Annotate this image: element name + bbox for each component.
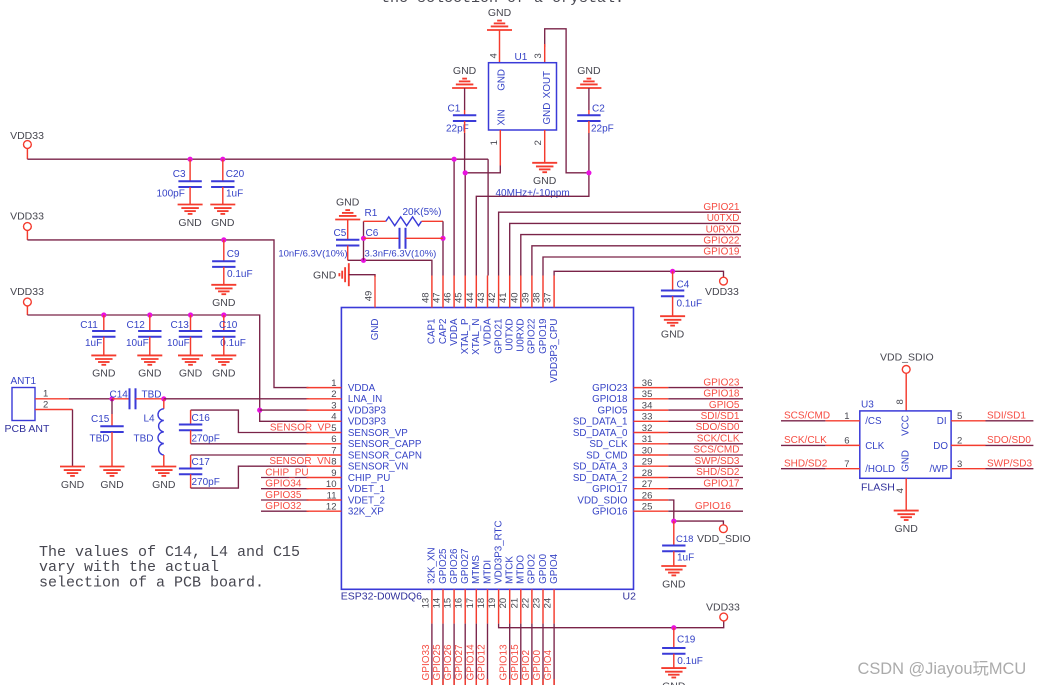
flash memory U3 body (860, 411, 951, 478)
capacitor C20 (211, 181, 234, 187)
svg-text:VDET_1: VDET_1 (348, 484, 385, 495)
svg-text:U3: U3 (861, 400, 874, 411)
svg-text:GPIO27: GPIO27 (454, 644, 465, 681)
svg-text:6: 6 (331, 434, 336, 445)
capacitor C2 (577, 115, 600, 121)
svg-text:32K_XP: 32K_XP (348, 507, 384, 518)
capacitor C15 bottom stub (111, 432, 113, 467)
svg-text:GPIO13: GPIO13 (499, 644, 510, 681)
svg-text:GPIO5: GPIO5 (709, 400, 740, 411)
svg-text:5: 5 (331, 423, 336, 434)
capacitor C20 top stub (222, 159, 224, 181)
svg-text:VDD33: VDD33 (10, 286, 44, 298)
capacitor C16 bottom stub (190, 430, 192, 444)
svg-text:GND: GND (533, 175, 557, 187)
wire net U0TXD (510, 223, 741, 275)
pin 3 VDD3P3 (U2 left) (307, 400, 387, 416)
svg-text:270pF: 270pF (192, 477, 220, 488)
wire VDD33 rail 1 vertical stub (26, 148, 28, 159)
svg-text:GND: GND (152, 479, 176, 491)
svg-text:10uF: 10uF (126, 338, 149, 349)
pin 46 VDDA (U2 top) (443, 276, 460, 346)
flash U3 pin 2 stub (right) (951, 444, 985, 446)
capacitor C6 (400, 228, 406, 249)
pin 22 GPIO2 (U2 bottom) (520, 554, 537, 624)
svg-text:C4: C4 (677, 280, 690, 291)
pin 19 VDD3P3_RTC (U2 bottom) (487, 520, 504, 623)
svg-text:2: 2 (957, 436, 962, 447)
resistor R1 left lead (364, 220, 386, 222)
svg-text:SWP/SD3: SWP/SD3 (694, 456, 739, 467)
svg-text:7: 7 (331, 445, 336, 456)
pin 45 XTAL_P (U2 top) (454, 276, 471, 355)
capacitor C6 right lead (406, 237, 444, 239)
wire net GPIO32 (pin stub) (261, 510, 309, 512)
svg-text:32: 32 (642, 423, 653, 434)
pin 25 GPIO16 (U2 right) (592, 502, 668, 518)
inductor L4 (158, 409, 164, 455)
svg-text:VDDA: VDDA (482, 318, 493, 346)
wire net GPIO2 red tail (531, 679, 533, 685)
wire net GPIO4 red tail (553, 679, 555, 685)
svg-text:GND: GND (542, 103, 553, 125)
svg-text:1uF: 1uF (226, 189, 243, 200)
wire net VDD_SDIO pin26 to C18 and terminal (668, 500, 723, 525)
svg-text:U0RXD: U0RXD (516, 319, 527, 352)
svg-text:0.1uF: 0.1uF (677, 656, 703, 667)
svg-text:1uF: 1uF (85, 338, 102, 349)
wire net GPIO2 (bottom) (531, 624, 533, 685)
svg-text:GPIO4: GPIO4 (549, 553, 560, 583)
svg-text:40MHz+/-10ppm: 40MHz+/-10ppm (496, 188, 570, 199)
svg-text:GND: GND (61, 479, 85, 491)
svg-text:/WP: /WP (929, 464, 948, 475)
capacitor C5 (336, 240, 359, 246)
crystal U1 pin 1 stub (499, 130, 501, 166)
wire SENSOR_VP pin5 to C16 top (191, 410, 309, 432)
svg-text:10nF/6.3V(10%): 10nF/6.3V(10%) (278, 249, 347, 260)
wire net SHD/SD2 (flash left) (781, 468, 825, 470)
svg-text:CHIP_PU: CHIP_PU (265, 467, 308, 478)
wire net VDD3P3_CPU to VDD33 / C4 (554, 271, 723, 277)
svg-text:45: 45 (454, 292, 465, 303)
ground under C19 (661, 668, 686, 685)
svg-text:SCS/CMD: SCS/CMD (784, 411, 830, 422)
svg-text:6: 6 (844, 436, 849, 447)
svg-text:C5: C5 (334, 228, 347, 239)
svg-text:GPIO32: GPIO32 (265, 501, 302, 512)
svg-text:12: 12 (326, 502, 337, 513)
VDD_SDIO terminal circle (above U3) (902, 366, 910, 374)
junction C6 right node (440, 236, 445, 241)
capacitor C15 (100, 426, 123, 432)
capacitor C12 top stub (149, 315, 151, 331)
wire net GPIO22 (532, 246, 741, 276)
capacitor C17 (179, 469, 202, 475)
svg-text:SENSOR_VN: SENSOR_VN (269, 456, 331, 467)
wire net GPIO25 red tail (442, 679, 444, 685)
svg-text:17: 17 (465, 598, 476, 609)
junction C14 right node / L4 (161, 396, 166, 401)
wire net SCK/CLK (right) (668, 443, 743, 445)
svg-text:13: 13 (420, 598, 431, 609)
svg-text:47: 47 (432, 292, 443, 303)
capacitor C4 bottom stub (672, 296, 674, 316)
pin 48 CAP1 (U2 top) (420, 276, 437, 345)
wire net VDD3P3_RTC pin19 to VDD33 / C19 (499, 621, 724, 628)
capacitor C1 bottom stub (464, 121, 466, 133)
pin 35 GPIO18 (U2 right) (592, 389, 668, 405)
antenna pin 2 stub (35, 409, 73, 411)
svg-text:42: 42 (487, 292, 498, 303)
svg-text:GPIO16: GPIO16 (695, 501, 732, 512)
capacitor C14 left stub (112, 398, 130, 400)
wire VDD33 rail 3 horizontal and drop to VDD3P3 pins 3-4 (27, 315, 308, 421)
svg-text:GPIO14: GPIO14 (465, 644, 476, 681)
ground under C15 (100, 467, 125, 491)
svg-text:C18: C18 (676, 534, 693, 545)
svg-text:GND: GND (313, 270, 337, 282)
svg-text:4: 4 (489, 53, 500, 58)
svg-text:CHIP_PU: CHIP_PU (348, 473, 390, 484)
svg-text:C10: C10 (219, 320, 238, 331)
svg-text:VDD_SDIO: VDD_SDIO (697, 533, 751, 545)
svg-text:U0RXD: U0RXD (706, 224, 740, 235)
svg-text:TBD: TBD (134, 434, 154, 445)
svg-text:GPIO2: GPIO2 (521, 649, 532, 680)
wire net GPIO14 red tail (475, 679, 477, 685)
inductor L4 top stub (163, 399, 165, 409)
capacitor C5 bottom stub (347, 246, 349, 261)
svg-text:20K(5%): 20K(5%) (403, 207, 442, 218)
pin 20 MTCK (U2 bottom) (498, 556, 515, 624)
power symbol VDD33 (rail 1) (10, 130, 44, 142)
svg-text:33: 33 (642, 412, 653, 423)
pin 2 LNA_IN (U2 left) (307, 389, 383, 405)
wire net GPIO19 (543, 257, 741, 276)
capacitor C13 (179, 331, 202, 337)
svg-text:SWP/SD3: SWP/SD3 (987, 458, 1032, 469)
VDD33 terminal circle (bottom) (720, 613, 728, 621)
capacitor C10 (212, 331, 235, 337)
flash U3 pin 4 stub (bottom) (905, 478, 907, 510)
svg-text:VDD33: VDD33 (10, 211, 44, 223)
svg-text:14: 14 (432, 598, 443, 609)
capacitor C19 top stub (673, 628, 675, 648)
svg-text:TBD: TBD (90, 434, 110, 445)
note text about C14 L4 C15 (39, 544, 300, 591)
inductor L4 bottom stub (163, 455, 165, 467)
pin 1 VDDA (U2 left) (307, 378, 376, 394)
flash U3 pin 5 stub (right) (951, 420, 985, 422)
junction C9 / VDD33 rail 2 (221, 237, 226, 242)
svg-text:GND: GND (138, 368, 162, 380)
svg-text:GPIO26: GPIO26 (443, 644, 454, 681)
junction C11 / VDD33 rail 3 (101, 312, 106, 317)
svg-text:SENSOR_CAPP: SENSOR_CAPP (348, 439, 422, 450)
wire net SDI/SD1 (flash right) (986, 420, 1034, 422)
svg-text:GND: GND (178, 217, 202, 229)
svg-text:10uF: 10uF (167, 338, 190, 349)
capacitor C11 top stub (103, 315, 105, 331)
svg-text:SCK/CLK: SCK/CLK (697, 434, 740, 445)
flash U3 pin 7 stub (left) (825, 468, 859, 470)
wire net GPIO26 red tail (453, 679, 455, 685)
wire net GPIO21 (499, 212, 741, 275)
wire ground to C5 (347, 220, 349, 240)
pin 30 SD_CMD (U2 right) (586, 445, 668, 461)
svg-text:U2: U2 (623, 591, 637, 603)
svg-text:XOUT: XOUT (542, 71, 553, 98)
ground under C12 (137, 355, 162, 379)
svg-text:GND: GND (488, 7, 512, 19)
pin 32 SD_DATA_0 (U2 right) (573, 423, 668, 439)
svg-text:24: 24 (543, 598, 554, 609)
wire VDD33 branch to pin 46 (453, 159, 455, 275)
capacitor C14 right stub (136, 398, 164, 400)
svg-text:GPIO0: GPIO0 (538, 553, 549, 583)
wire VDD33 rail 2 stub (26, 230, 28, 240)
capacitor C18 (662, 546, 685, 552)
capacitor C4 top stub (672, 271, 674, 290)
pin 11 VDET_2 (U2 left) (307, 490, 385, 506)
svg-text:VDET_2: VDET_2 (348, 495, 385, 506)
wire net SDO/SD0 (flash right) (986, 444, 1034, 446)
pin 21 MTDO (U2 bottom) (509, 555, 526, 624)
capacitor C9 top stub (223, 240, 225, 261)
pin 36 GPIO23 (U2 right) (592, 378, 668, 394)
pin 9 CHIP_PU (U2 left) (307, 468, 391, 484)
pin 47 CAP2 (U2 top) (432, 276, 449, 345)
svg-text:XTAL_N: XTAL_N (471, 318, 482, 354)
ground above C1 (452, 65, 477, 88)
ground above C5 (335, 196, 360, 219)
VDD_SDIO terminal circle (720, 525, 728, 533)
svg-text:LNA_IN: LNA_IN (348, 394, 382, 405)
wire C14 node to LNA_IN pin 2 (164, 398, 309, 400)
svg-text:SD_DATA_0: SD_DATA_0 (573, 428, 628, 439)
svg-text:36: 36 (642, 378, 653, 389)
svg-text:21: 21 (509, 598, 520, 609)
wire crystal pin3 loop to C2 (545, 29, 589, 173)
svg-text:VCC: VCC (901, 415, 912, 436)
svg-text:U1: U1 (515, 52, 528, 63)
svg-text:MTDI: MTDI (482, 560, 493, 584)
wire net U0RXD (521, 235, 741, 276)
pin 16 GPIO27 (U2 bottom) (454, 548, 471, 623)
svg-text:9: 9 (331, 468, 336, 479)
wire ground to C2 (588, 88, 590, 110)
wire net SDI/SD1 (right) (668, 420, 743, 422)
pin 44 XTAL_N (U2 top) (465, 276, 482, 355)
svg-text:GPIO4: GPIO4 (543, 649, 554, 680)
svg-text:SDI/SD1: SDI/SD1 (701, 411, 740, 422)
wire net GPIO34 (pin stub) (261, 488, 309, 490)
svg-text:GPIO23: GPIO23 (703, 377, 740, 388)
svg-text:22pF: 22pF (446, 124, 469, 135)
svg-text:/CS: /CS (865, 416, 882, 427)
antenna pin 1 stub (35, 398, 69, 400)
junction XIN / C1 / XTAL_P (463, 170, 468, 175)
svg-text:1uF: 1uF (677, 553, 694, 564)
crystal U1 pin 3 stub (544, 44, 546, 63)
wire net GPIO0 red tail (542, 679, 544, 685)
svg-text:18: 18 (476, 598, 487, 609)
capacitor C3 top stub (189, 159, 191, 181)
svg-text:31: 31 (642, 434, 653, 445)
pin 33 SD_DATA_1 (U2 right) (573, 412, 668, 428)
svg-text:SENSOR_VP: SENSOR_VP (348, 428, 408, 439)
svg-text:44: 44 (465, 292, 476, 303)
ground above crystal pin 4 (487, 7, 512, 30)
ground under C10 (211, 355, 236, 379)
junction VDDA pin46 branch (452, 157, 457, 162)
junction C6 left node (361, 236, 366, 241)
ground under L4 (151, 467, 176, 491)
pin 8 SENSOR_VN (U2 left) (307, 457, 409, 473)
wire SENSOR_CAPN pin7 to C17 top (191, 454, 309, 456)
junction C3 / VDD33 rail (188, 157, 193, 162)
svg-text:100pF: 100pF (157, 189, 185, 200)
ground under C9 (211, 285, 236, 309)
svg-text:34: 34 (642, 400, 653, 411)
pin 43 VDDA (U2 top) (476, 276, 493, 346)
svg-text:30: 30 (642, 445, 653, 456)
wire VDD33 rail 2 horizontal and drop to pin 1 VDDA (27, 240, 308, 388)
svg-text:GND: GND (370, 319, 381, 341)
wire net GPIO12 (bottom) (487, 624, 489, 685)
wire net GPIO13 (bottom) (509, 624, 511, 685)
svg-text:GPIO23: GPIO23 (592, 383, 628, 394)
svg-text:C1: C1 (448, 104, 461, 115)
svg-text:ANT1: ANT1 (11, 376, 37, 387)
svg-text:GPIO18: GPIO18 (592, 394, 628, 405)
svg-text:VDD_SDIO: VDD_SDIO (577, 495, 627, 506)
pin 34 GPIO5 (U2 right) (598, 400, 669, 416)
svg-text:10: 10 (326, 479, 337, 490)
wire net GPIO4 (bottom) (553, 624, 555, 685)
svg-text:GND: GND (92, 368, 116, 380)
svg-text:SDO/SD0: SDO/SD0 (696, 422, 740, 433)
capacitor C13 bottom stub (190, 337, 192, 356)
pin 38 GPIO19 (U2 top) (532, 276, 549, 354)
svg-text:4: 4 (895, 488, 906, 493)
wire C2 to XTAL_N pin 44 (476, 133, 589, 276)
svg-text:38: 38 (532, 292, 543, 303)
svg-text:L4: L4 (144, 414, 156, 425)
ground under U3 (894, 511, 919, 535)
capacitor C10 bottom stub (223, 337, 225, 356)
capacitor C18 top stub (673, 521, 675, 545)
pin 41 U0TXD (U2 top) (498, 276, 515, 351)
svg-text:29: 29 (642, 457, 653, 468)
svg-text:SDO/SD0: SDO/SD0 (987, 435, 1031, 446)
junction VDD3P3 pin 3 branch (257, 408, 262, 413)
svg-text:GPIO33: GPIO33 (421, 644, 432, 681)
svg-text:SDI/SD1: SDI/SD1 (987, 411, 1026, 422)
wire C17 bottom to SENSOR_VN pin8 (191, 466, 309, 488)
svg-text:ESP32-D0WDQ6: ESP32-D0WDQ6 (341, 591, 422, 603)
svg-text:GPIO0: GPIO0 (532, 649, 543, 680)
svg-text:MTDO: MTDO (516, 555, 527, 584)
svg-text:C20: C20 (226, 169, 245, 180)
VDD33 terminal circle (rail 2) (24, 223, 32, 231)
svg-text:GPIO19: GPIO19 (538, 319, 549, 354)
junction XOUT / C2 / XTAL_N (586, 170, 591, 175)
wire net GPIO15 (bottom) (520, 624, 522, 685)
svg-text:DO: DO (933, 441, 948, 452)
flash U3 pin 1 stub (left) (825, 420, 859, 422)
svg-text:VDD3P3_CPU: VDD3P3_CPU (549, 319, 560, 383)
wire net GPIO23 (right) (668, 387, 743, 389)
power symbol VDD33 (rail 3) (10, 286, 44, 298)
svg-text:U0TXD: U0TXD (707, 213, 740, 224)
pin 39 GPIO22 (U2 top) (520, 276, 537, 354)
svg-text:28: 28 (642, 468, 653, 479)
ground under C18 (661, 566, 686, 590)
capacitor C12 bottom stub (149, 337, 151, 356)
wire CAP2 net: right node down to pin 47 (442, 221, 444, 275)
svg-text:VDD3P3: VDD3P3 (348, 417, 387, 428)
svg-text:R1: R1 (365, 208, 378, 219)
wire net GPIO12 red tail (487, 679, 489, 685)
svg-text:35: 35 (642, 389, 653, 400)
wire net GPIO18 (right) (668, 398, 743, 400)
svg-text:C6: C6 (366, 228, 379, 239)
svg-text:selection of a PCB board.: selection of a PCB board. (39, 574, 264, 591)
VDD33 terminal circle (rail 1) (24, 141, 32, 149)
svg-text:8: 8 (895, 399, 906, 404)
flash U3 pin 3 stub (right) (951, 468, 985, 470)
pin 31 SD_CLK (U2 right) (589, 434, 668, 450)
svg-text:SENSOR_CAPN: SENSOR_CAPN (348, 450, 422, 461)
capacitor C2 bottom stub (588, 121, 590, 133)
wire ground to C1 (464, 88, 466, 110)
pin 26 VDD_SDIO (U2 right) (577, 490, 668, 506)
crystal U1 pin 2 stub (544, 130, 546, 163)
capacitor C16 (179, 425, 202, 431)
pin 28 SD_DATA_2 (U2 right) (573, 468, 668, 484)
svg-text:VDD3P3: VDD3P3 (348, 405, 387, 416)
wire ANT1 pin2 down to ground (72, 410, 74, 467)
svg-text:MTCK: MTCK (505, 556, 516, 584)
svg-text:1: 1 (489, 140, 500, 145)
capacitor C17 top stub (190, 455, 192, 469)
svg-text:SCS/CMD: SCS/CMD (693, 445, 739, 456)
svg-text:1: 1 (43, 389, 48, 400)
svg-text:19: 19 (487, 598, 498, 609)
junction C19 / VDD3P3_RTC net (671, 625, 676, 630)
pin 6 SENSOR_CAPP (U2 left) (307, 434, 422, 450)
svg-text:8: 8 (331, 457, 336, 468)
svg-text:XIN: XIN (496, 109, 507, 125)
junction C18 / VDD_SDIO net (671, 519, 676, 524)
svg-text:GPIO21: GPIO21 (703, 202, 740, 213)
svg-text:GPIO27: GPIO27 (460, 548, 471, 583)
svg-text:GPIO26: GPIO26 (449, 548, 460, 584)
svg-text:FLASH: FLASH (861, 482, 895, 494)
pin 5 SENSOR_VP (U2 left) (307, 423, 409, 439)
svg-text:48: 48 (420, 292, 431, 303)
svg-text:C11: C11 (80, 320, 98, 331)
flash U3 pin 6 stub (left) (825, 444, 859, 446)
svg-text:GND: GND (336, 196, 360, 208)
pin 24 GPIO4 (U2 bottom) (543, 553, 560, 623)
svg-text:GPIO5: GPIO5 (598, 405, 628, 416)
capacitor C6 left lead (364, 237, 400, 239)
wire net GPIO26 (bottom) (453, 624, 455, 685)
svg-text:GPIO35: GPIO35 (265, 490, 302, 501)
